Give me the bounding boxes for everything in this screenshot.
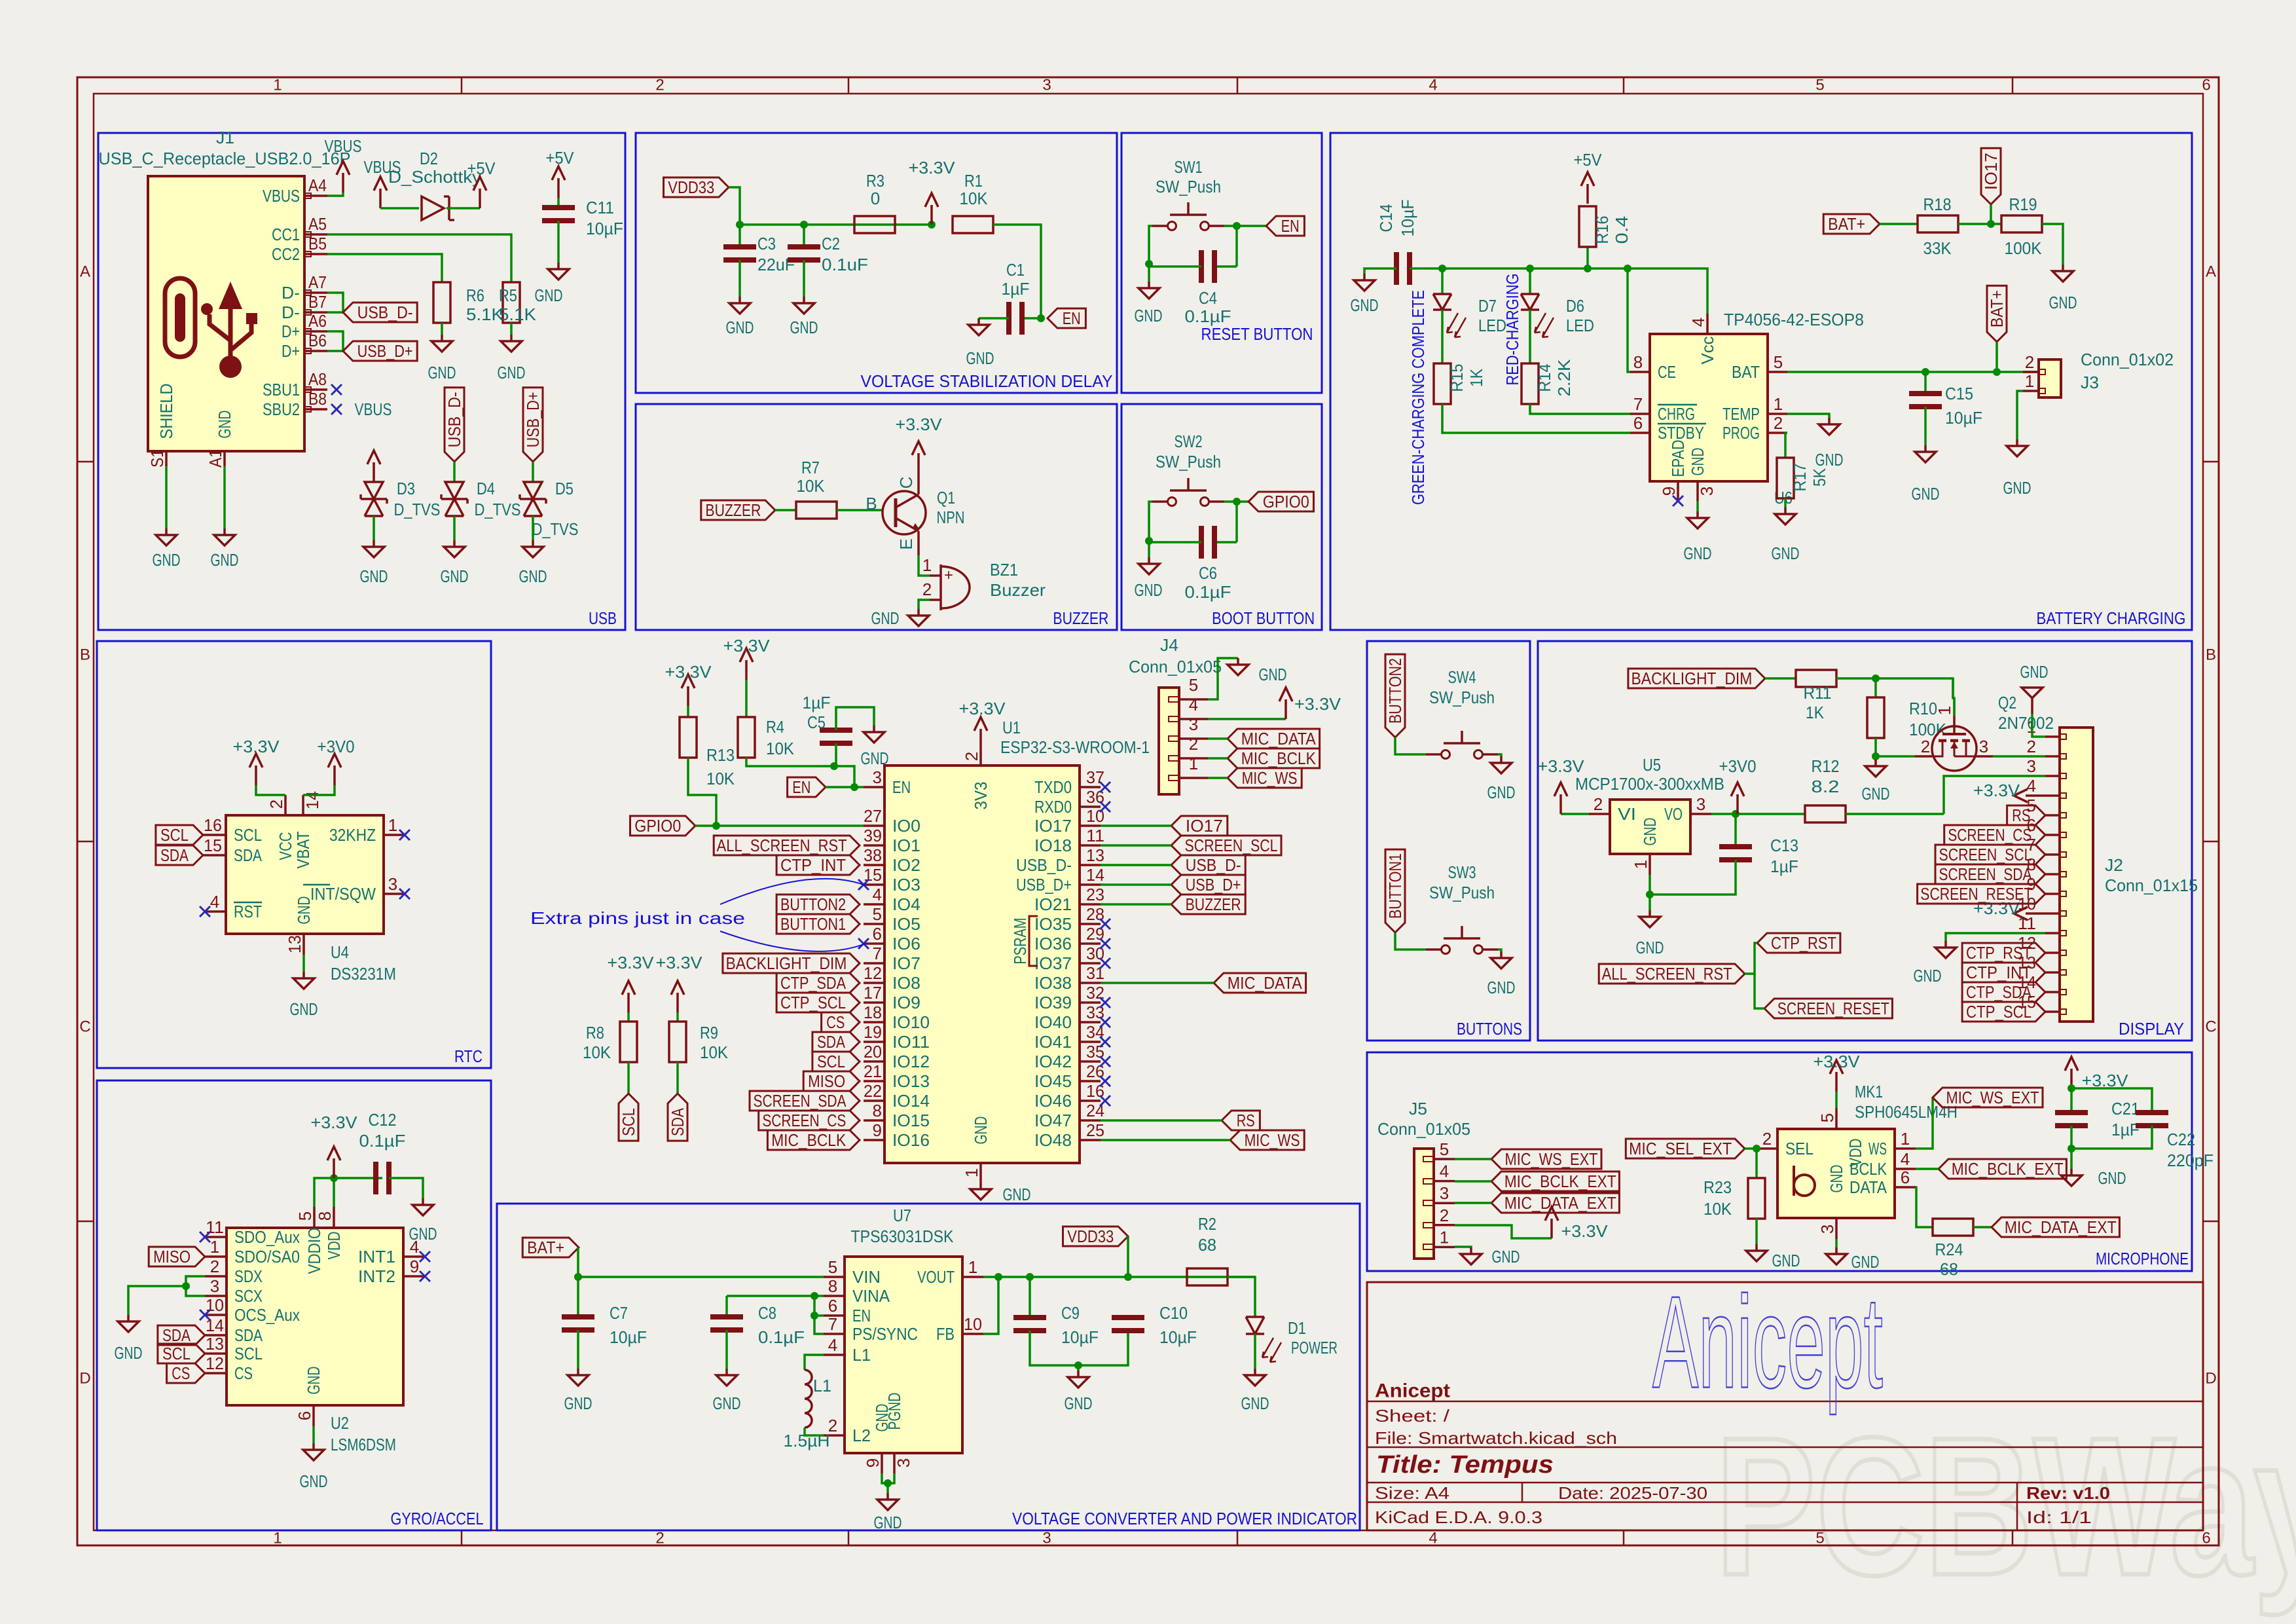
U1 pin 3V3 [979,748,982,766]
svg-text:C12: C12 [369,1110,397,1130]
svg-text:DISPLAY: DISPLAY [2119,1019,2184,1039]
svg-text:38: 38 [864,845,882,865]
wire [1586,247,1589,268]
wire [1101,982,1214,984]
svg-text:CC2: CC2 [272,244,300,264]
net label SCL [812,1052,860,1071]
svg-text:1: 1 [1189,754,1198,773]
resistor R23 [1748,1178,1765,1219]
wire [1237,500,1248,503]
svg-text:SW_Push: SW_Push [1156,177,1221,196]
wire [1755,1149,1758,1178]
svg-text:C14: C14 [1376,204,1396,232]
svg-text:GND: GND [874,1513,902,1532]
svg-text:R5: R5 [499,286,517,305]
wire [882,1473,894,1483]
svg-text:VOLTAGE STABILIZATION DELAY: VOLTAGE STABILIZATION DELAY [861,371,1113,391]
ground [908,609,929,626]
wire [1224,225,1237,227]
wire [2070,1088,2073,1113]
resistor R19 [2001,215,2042,232]
svg-text:TP4056-42-ESOP8: TP4056-42-ESOP8 [1724,310,1864,329]
no-connect [1100,958,1110,969]
svg-text:CTP_SDA: CTP_SDA [780,973,847,993]
U1 right pins [1016,767,1104,1150]
svg-text:U5: U5 [1643,755,1661,775]
junction [1872,674,1880,682]
wire [1835,1092,1838,1108]
LED D1 POWER [1246,1317,1281,1362]
resistor R8 [620,1022,637,1062]
wire [303,785,335,795]
svg-text:3: 3 [1696,794,1705,814]
svg-text:21: 21 [864,1061,882,1081]
svg-text:GND: GND [1684,544,1712,563]
svg-text:2.2K: 2.2K [1554,359,1574,397]
ground [1935,941,1956,958]
resistor R7 [796,502,837,519]
svg-text:+5V: +5V [467,158,496,178]
svg-text:RTC: RTC [454,1046,483,1066]
svg-text:DS3231M: DS3231M [331,964,396,984]
J3 pin 1 [2023,390,2039,392]
wire [302,955,305,972]
svg-text:CTP_INT: CTP_INT [1966,963,2032,982]
svg-text:IO17: IO17 [1034,816,1072,836]
svg-text:0.4: 0.4 [1612,216,1631,244]
svg-text:C7: C7 [610,1303,628,1323]
svg-text:SBU2: SBU2 [263,399,300,419]
svg-text:L1: L1 [813,1376,831,1395]
wire [1755,1219,1758,1244]
svg-text:SCL: SCL [162,1344,191,1363]
svg-text:Conn_01x15: Conn_01x15 [2105,876,2198,895]
svg-text:SDA: SDA [160,845,189,865]
junction [928,221,936,229]
svg-text:4: 4 [1440,1162,1449,1181]
wire [256,785,285,795]
svg-text:IO8: IO8 [892,973,920,993]
svg-text:0.1uF: 0.1uF [822,255,868,274]
svg-text:BUTTON1: BUTTON1 [1385,853,1405,919]
svg-text:IO6: IO6 [892,934,920,953]
capacitor C21 [2055,1113,2088,1126]
svg-text:12: 12 [206,1354,224,1373]
section box MICROPHONE [1367,1052,2192,1271]
svg-text:0.1µF: 0.1µF [758,1327,805,1347]
svg-text:CS: CS [826,1012,845,1032]
svg-text:3: 3 [2027,756,2036,776]
wire [1874,756,1877,760]
svg-text:FB: FB [936,1324,955,1344]
svg-text:1: 1 [273,1530,282,1547]
net label EN [1048,308,1085,328]
power +3.3V [959,699,1006,748]
svg-text:GYRO/ACCEL: GYRO/ACCEL [391,1509,484,1528]
svg-text:ALL_SCREEN_RST: ALL_SCREEN_RST [1602,964,1732,984]
svg-text:MICROPHONE: MICROPHONE [2096,1249,2189,1268]
svg-text:SDA: SDA [234,845,263,865]
net label SCL [156,825,203,845]
svg-text:C21: C21 [2111,1099,2140,1118]
wire [128,1286,186,1315]
wire [1916,1098,1933,1149]
wire [2042,224,2063,265]
net label CTP_SDA [1962,982,2045,1002]
svg-text:U4: U4 [331,942,349,962]
diode D3 D_TVS [361,482,387,516]
svg-text:1: 1 [962,1168,981,1177]
svg-text:SCREEN_CS: SCREEN_CS [762,1111,846,1130]
net label VDD33 [1063,1227,1129,1246]
wire [775,509,796,511]
svg-text:ESP32-S3-WROOM-1: ESP32-S3-WROOM-1 [1000,737,1150,757]
svg-text:VINA: VINA [852,1286,890,1306]
wire [1208,718,1286,720]
svg-text:9: 9 [863,1458,883,1467]
svg-text:GND: GND [861,748,889,768]
junction [850,783,858,791]
wire [314,1178,382,1207]
svg-text:7: 7 [873,944,882,963]
svg-text:6: 6 [2202,77,2210,94]
net label MIC_DATA_EXT [1491,1193,1619,1213]
svg-text:10µF: 10µF [1061,1327,1099,1347]
IC MK1 SPH0645LM4H [1777,1129,1895,1218]
connector J4 Conn_01x05 [1159,688,1179,794]
net label CS [167,1363,205,1383]
J1 pins [263,175,327,419]
ground [864,726,884,743]
svg-text:3: 3 [1697,487,1717,496]
svg-text:WS: WS [1868,1139,1887,1158]
ground [1245,1369,1266,1386]
svg-text:2: 2 [1762,1129,1772,1149]
ground [1139,557,1159,574]
wire [919,600,930,609]
svg-text:Size: A4: Size: A4 [1375,1483,1449,1503]
svg-text:18: 18 [864,1003,882,1022]
transistor Q1 NPN [883,473,926,555]
svg-text:10K: 10K [1704,1199,1732,1219]
svg-text:23: 23 [1086,885,1104,904]
svg-text:R1: R1 [964,171,983,191]
microphone glyph [1794,1166,1815,1196]
svg-text:R3: R3 [866,171,884,191]
wire [1650,860,1736,895]
resistor R1 [953,216,993,233]
ground [1687,511,1708,528]
svg-text:SCL: SCL [817,1052,845,1071]
svg-text:SW4: SW4 [1448,667,1476,687]
svg-text:3V3: 3V3 [971,782,991,810]
wire [165,466,168,528]
svg-text:A8: A8 [308,369,327,389]
svg-text:Conn_01x05: Conn_01x05 [1129,657,1222,676]
svg-text:BZ1: BZ1 [990,560,1018,580]
capacitor C6 [1201,526,1214,559]
wire [2032,714,2045,737]
wire [1973,1226,1992,1228]
net label SCREEN_RESET [1918,884,2045,904]
svg-text:MIC_DATA_EXT: MIC_DATA_EXT [2005,1217,2117,1237]
svg-text:SW_Push: SW_Push [1429,883,1495,902]
svg-text:L1: L1 [852,1345,871,1365]
no-connect [1100,919,1110,929]
no-connect [399,889,410,899]
svg-text:6: 6 [1633,413,1643,433]
svg-text:D_TVS: D_TVS [475,500,521,519]
net label MISO [149,1247,205,1266]
wire [1924,407,1927,445]
wire [327,293,343,312]
wire [1442,404,1630,433]
wire [1235,226,1238,267]
wire [532,516,534,540]
U6 pin names [1658,337,1760,477]
svg-text:4: 4 [828,1335,837,1355]
svg-text:L2: L2 [852,1426,871,1445]
junction [1753,1145,1760,1153]
svg-text:Title: Tempus: Title: Tempus [1376,1451,1554,1479]
svg-text:+3V0: +3V0 [318,737,355,756]
svg-text:C3: C3 [757,234,776,253]
junction [1872,752,1880,760]
J2 pins [2018,717,2060,1012]
junction [2068,1084,2075,1092]
svg-text:EN: EN [1063,308,1081,328]
svg-text:8: 8 [828,1276,837,1296]
wire [803,260,805,297]
wire [1148,264,1150,282]
wire [1208,777,1228,779]
svg-text:3: 3 [1042,1530,1051,1547]
wire [1149,265,1201,268]
no-connect [1100,1056,1110,1067]
ground [1461,1247,1482,1264]
svg-text:IO17: IO17 [1186,816,1223,836]
wire [1441,310,1444,363]
svg-text:MIC_WS_EXT: MIC_WS_EXT [1505,1149,1598,1169]
wire [327,331,343,351]
junction [182,1282,190,1290]
svg-text:+3.3V: +3.3V [311,1113,358,1132]
no-connect [1100,1096,1110,1106]
svg-text:GND: GND [1688,448,1707,476]
ground [1639,910,1660,927]
wire [1787,371,2041,373]
wire [1498,950,1501,951]
wire [1101,883,1171,886]
net label MIC_WS [1230,1130,1304,1150]
buzzer BZ1 [930,564,970,610]
svg-text:J2: J2 [2105,855,2123,875]
capacitor C9 [1013,1318,1046,1331]
svg-text:1: 1 [388,815,397,835]
svg-text:BUZZER: BUZZER [705,500,761,520]
resistor R15 [1434,363,1451,404]
svg-text:6: 6 [2202,1530,2210,1547]
svg-text:+3.3V: +3.3V [959,699,1006,718]
svg-text:A7: A7 [308,272,327,292]
svg-text:10K: 10K [960,189,989,208]
ground [1915,445,1936,462]
section box VOLTAGE CONVERTER AND POWER INDICATOR [497,1204,1360,1530]
net label IO17 [1171,816,1228,836]
net label SCL [619,1094,638,1141]
wire [327,193,343,196]
svg-text:B5: B5 [308,234,327,253]
net label MIC_WS [1228,768,1302,788]
net label CTP_SDA [776,973,860,993]
svg-text:STDBY: STDBY [1658,423,1704,443]
svg-text:USB_D-: USB_D- [445,392,464,447]
switch SW3 SW_Push [1426,926,1498,954]
svg-text:3: 3 [388,874,397,894]
svg-text:J5: J5 [1409,1099,1427,1118]
junction [1037,314,1045,322]
svg-text:GND: GND [1487,978,1516,997]
svg-text:VOUT: VOUT [917,1267,955,1287]
ground [729,297,750,314]
wire [740,223,932,226]
svg-text:NPN: NPN [937,507,965,527]
ground [1746,1244,1767,1261]
svg-text:GND: GND [1636,938,1664,957]
wire [1880,223,1918,225]
wire [746,758,864,787]
svg-text:0: 0 [871,189,880,208]
svg-text:R15: R15 [1447,364,1467,392]
svg-text:BAT+: BAT+ [1987,290,2007,327]
wire [2070,1126,2073,1169]
svg-text:GND: GND [2049,293,2077,312]
net label EN [1266,216,1304,236]
svg-text:32KHZ: 32KHZ [329,825,376,845]
wire [1101,1139,1230,1141]
net label SCREEN_SDA [1935,864,2045,884]
ground [156,528,177,545]
wire [1784,498,1787,507]
junction [712,822,720,830]
ground [118,1315,139,1332]
ground [2061,1169,2082,1186]
svg-text:9: 9 [873,1120,882,1140]
svg-text:27: 27 [864,806,882,826]
svg-text:RXD0: RXD0 [1034,797,1072,817]
section box RTC [97,641,491,1068]
wire [577,1277,579,1317]
power +3V0 [1719,756,1757,814]
svg-text:+5V: +5V [1574,150,1603,170]
svg-text:SHIELD: SHIELD [156,384,176,439]
svg-text:C: C [79,1018,90,1036]
wire [441,323,443,335]
svg-text:USB_D-: USB_D- [357,303,413,322]
svg-text:GND: GND [1003,1185,1031,1204]
net label BUTTON1 [1385,849,1405,932]
net label BAT+ [1987,286,2007,342]
svg-text:5: 5 [1774,352,1783,372]
wire [1946,933,2045,941]
ground [363,540,384,557]
svg-text:RED-CHARGING: RED-CHARGING [1503,274,1522,386]
svg-text:D: D [79,1370,90,1388]
wire [1953,678,1954,716]
svg-text:220pF: 220pF [2167,1151,2214,1170]
svg-text:IO0: IO0 [892,816,920,836]
ground [548,263,569,280]
ground [2007,439,2028,456]
svg-text:Date: 2025-07-30: Date: 2025-07-30 [1558,1483,1707,1503]
svg-text:MIC_DATA_EXT: MIC_DATA_EXT [1504,1193,1616,1213]
svg-text:GND: GND [441,566,469,586]
wire [1101,824,1171,827]
ground [501,335,522,352]
resistor R3 [854,216,895,233]
junction [1438,265,1446,272]
svg-text:MK1: MK1 [1855,1082,1883,1101]
svg-text:1µF: 1µF [1770,857,1798,876]
svg-text:8: 8 [1633,352,1643,372]
svg-text:Conn_01x02: Conn_01x02 [2081,350,2174,369]
svg-text:GND: GND [535,286,563,305]
svg-text:IO15: IO15 [892,1111,930,1130]
svg-text:A: A [2206,263,2216,281]
capacitor C10 [1112,1318,1144,1331]
no-connect [420,1251,430,1262]
connector J2 Conn_01x15 [2060,728,2093,1022]
IC U1 ESP32-S3-WROOM-1 [884,766,1080,1163]
net label CTP_RST [1962,943,2045,963]
wire [2017,391,2023,439]
svg-text:USB_D+: USB_D+ [1186,875,1241,895]
net label SCREEN_CS [1944,825,2045,845]
net label BUTTON2 [1385,654,1405,737]
svg-text:+3.3V: +3.3V [233,737,280,756]
svg-text:1µF: 1µF [803,693,831,712]
capacitor C12 [376,1162,389,1194]
U2 pins [205,1207,425,1426]
svg-text:MIC_BCLK: MIC_BCLK [1241,748,1317,768]
svg-text:R17: R17 [1790,464,1810,492]
svg-text:GND: GND [564,1393,592,1413]
power +3.3V [665,662,712,706]
net label MIC_WS_EXT [1933,1088,2043,1107]
resistor R11 [1796,670,1836,687]
svg-text:33K: 33K [1923,238,1952,258]
wire [676,1012,679,1022]
resistor R6 [433,282,450,323]
svg-text:VDDIO: VDDIO [304,1228,324,1274]
net label RS [1222,1111,1260,1130]
wire [1077,1365,1080,1371]
svg-text:IO3: IO3 [892,875,920,895]
wire [1455,1158,1491,1160]
MK1 pins [1757,1108,1916,1239]
svg-text:EN: EN [892,777,911,797]
svg-text:IO11: IO11 [892,1032,930,1052]
svg-text:5: 5 [1815,1530,1824,1547]
svg-text:SCREEN_CS: SCREEN_CS [1948,825,2032,845]
svg-text:RS: RS [1237,1111,1255,1130]
svg-text:5: 5 [873,904,882,924]
svg-text:5: 5 [1440,1139,1449,1159]
USB logo [165,278,257,378]
svg-text:SDA: SDA [668,1108,687,1137]
junction [994,1273,1002,1281]
svg-text:GND: GND [1065,1393,1093,1413]
